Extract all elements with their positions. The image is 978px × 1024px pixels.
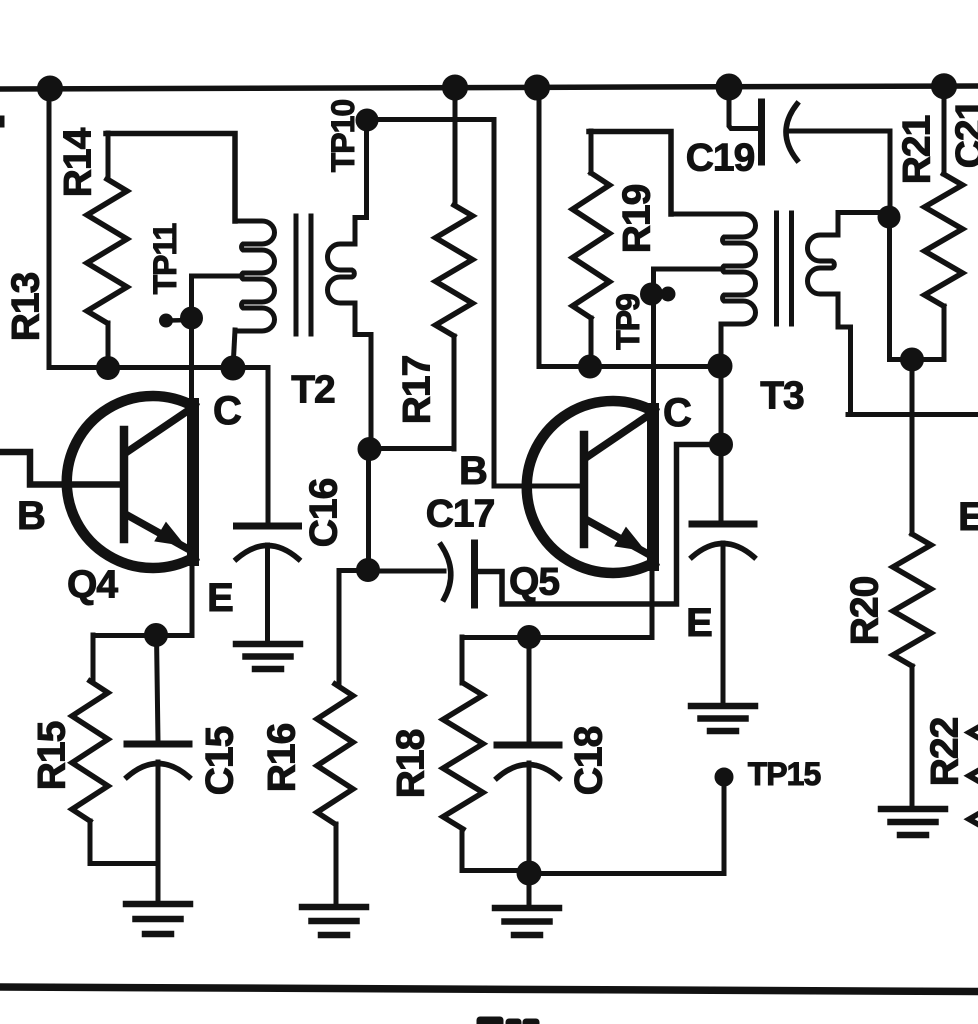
resistor R20 xyxy=(893,534,931,666)
wire: Q5 emitter lead xyxy=(650,563,655,637)
wire: Q5 emitter bias rail xyxy=(462,635,652,640)
svg-text:R15: R15 xyxy=(31,721,74,790)
svg-text:E: E xyxy=(686,601,712,645)
svg-text:Q5: Q5 xyxy=(509,561,559,604)
partial text below border (R23 top clipped) xyxy=(477,1017,503,1024)
transistor Q4 collector-emitter bar xyxy=(187,404,199,560)
ground for R16 xyxy=(302,904,366,911)
wire: R18 bottom to C18 xyxy=(462,868,529,873)
wire: T3 secondary bottom lead to output line xyxy=(838,294,851,413)
wire: TP15 lead xyxy=(529,781,724,874)
wire: T3 bottom node down through C17 node to C20 xyxy=(719,366,724,521)
wire: +V top supply bus xyxy=(0,86,978,89)
wire: T2 secondary top lead to TP10 xyxy=(355,121,367,244)
wire: stage-1 bias rail xyxy=(49,365,268,370)
transistor Q5 collector-emitter bar xyxy=(647,409,659,565)
svg-text:R13: R13 xyxy=(5,272,48,341)
wire: C19 to T3 secondary node xyxy=(791,131,890,218)
transformer T2 secondary winding xyxy=(328,244,356,303)
node: C18 junction xyxy=(518,626,541,649)
svg-text:TP10: TP10 xyxy=(325,100,361,173)
svg-text:R16: R16 xyxy=(261,723,304,792)
svg-text:C: C xyxy=(213,389,241,433)
wire: R17 bottom to junction xyxy=(369,446,454,451)
svg-text:C17: C17 xyxy=(426,493,495,536)
wire: Q4 base lead from left edge xyxy=(0,452,120,485)
resistor R17 xyxy=(453,91,458,205)
Q4 emitter diagonal with arrow xyxy=(127,515,188,549)
capacitor C15 xyxy=(157,635,159,741)
svg-text:C: C xyxy=(663,391,691,435)
wire: junction to C17 xyxy=(368,569,444,574)
transistor Q5 base bar xyxy=(580,435,589,544)
wire: T3 center tap to TP9 and Q5 collector xyxy=(654,269,724,410)
transistor Q4 body circle xyxy=(67,396,193,568)
svg-text:R17: R17 xyxy=(396,356,439,425)
node: C18 bottom / TP15 junction xyxy=(517,861,541,885)
wire: junction down to R16/C17 node xyxy=(366,449,371,570)
ground for C16 xyxy=(236,641,300,648)
wire: R14 top to T2 primary top xyxy=(106,134,235,222)
node: R19 bottom junction xyxy=(579,355,602,378)
node: R14 bottom junction xyxy=(97,357,120,380)
svg-text:E: E xyxy=(958,495,978,539)
wire: Q4 emitter bias rail xyxy=(93,633,192,638)
svg-text:T2: T2 xyxy=(291,369,335,412)
svg-text:Q4: Q4 xyxy=(67,564,118,607)
svg-text:R18: R18 xyxy=(390,729,433,798)
node: R21 / R20 junction xyxy=(901,348,924,371)
test point TP10 xyxy=(356,109,378,131)
node: bus junction at C19 xyxy=(716,74,742,100)
wire: output line to right edge xyxy=(848,412,978,417)
wire: left rail from bus down xyxy=(47,88,52,367)
svg-text:C21: C21 xyxy=(949,99,978,168)
svg-text:R22: R22 xyxy=(924,717,967,786)
svg-text:TP9: TP9 xyxy=(610,294,646,350)
svg-text:R19: R19 xyxy=(616,184,659,253)
capacitor C20 xyxy=(692,521,754,528)
wire: T3 secondary top lead to C19 node xyxy=(838,213,889,236)
wire: TP10 to Q5 base xyxy=(367,120,580,487)
capacitor C17 xyxy=(441,545,451,599)
node: C20 / T3-bottom / C17 junction xyxy=(710,433,733,456)
capacitor C16 xyxy=(237,523,299,530)
wire: R15 bottom to C15 xyxy=(90,861,158,866)
wire: T2 secondary bottom lead down to R17 junction xyxy=(355,303,371,449)
capacitor C19 xyxy=(729,87,757,129)
test point TP11 xyxy=(181,307,203,329)
svg-text:TP11: TP11 xyxy=(147,223,183,294)
node: T3 primary bottom node xyxy=(708,354,732,378)
svg-text:C16: C16 xyxy=(303,478,346,547)
ground for C18 xyxy=(495,905,559,912)
svg-text:C18: C18 xyxy=(568,726,611,795)
node: C19 / T3 secondary top junction xyxy=(878,206,900,228)
transformer T3 secondary winding xyxy=(808,235,837,294)
svg-text:B: B xyxy=(459,449,487,493)
Q5 emitter diagonal with arrow xyxy=(587,520,648,554)
border: bottom rule line xyxy=(0,987,978,992)
resistor R21 xyxy=(942,88,947,174)
Q5 collector diagonal xyxy=(587,417,646,457)
node: R16 / C17 junction xyxy=(357,559,380,582)
node: bus junction at R17 xyxy=(443,75,468,100)
transistor Q5 body circle xyxy=(527,401,653,573)
ground for R20 xyxy=(881,806,945,813)
svg-text:TP15: TP15 xyxy=(748,756,821,792)
resistor R18 xyxy=(460,637,465,683)
wire: T2 center tap to TP11 and Q4 collector xyxy=(192,276,243,408)
svg-text:R20: R20 xyxy=(844,576,887,645)
resistor R15 xyxy=(91,635,96,681)
wire: stub at left edge xyxy=(0,116,4,127)
node: collector node C (T2 primary bottom) xyxy=(221,356,245,380)
svg-text:B: B xyxy=(17,494,45,538)
wire: C17 to Q5 collector node loop xyxy=(474,445,721,605)
ground for C20 xyxy=(691,703,755,710)
wire: T2 primary bottom lead to collector node xyxy=(233,330,235,368)
resistor R19 xyxy=(589,131,594,173)
wire: C19 node down to R21 bottom rail xyxy=(890,218,945,360)
wire: stage-2 rail from bus down xyxy=(537,88,542,366)
svg-text:R21: R21 xyxy=(896,115,939,184)
node: bus junction at stage-2 rail xyxy=(525,75,550,100)
node: bus junction at R21 xyxy=(932,74,957,99)
resistor R22 (partially visible at right edge) xyxy=(969,700,978,830)
wire: T3 primary bottom lead xyxy=(719,327,724,366)
resistor R14 xyxy=(106,133,111,179)
node: R17 / T2 secondary junction xyxy=(358,438,381,461)
ground for C15 xyxy=(126,901,190,908)
transformer T2 primary winding xyxy=(235,221,275,331)
svg-text:T3: T3 xyxy=(760,375,804,418)
transformer T3 core xyxy=(774,213,779,324)
wire: stage-2 bias rail xyxy=(539,364,721,369)
wire: Q4 emitter lead xyxy=(190,558,195,635)
Q4 collector diagonal xyxy=(127,412,186,452)
transformer T3 primary winding xyxy=(671,214,756,324)
resistor R16 xyxy=(339,571,368,685)
svg-text:E: E xyxy=(207,576,233,620)
svg-text:R14: R14 xyxy=(57,127,100,197)
node: bus junction at left rail xyxy=(38,76,63,101)
capacitor C18 xyxy=(527,637,532,742)
wire: junction down to R20 xyxy=(910,359,915,534)
test point TP15 xyxy=(715,768,733,786)
transformer T2 core xyxy=(294,216,299,334)
transistor Q4 base bar xyxy=(120,430,129,539)
test point TP9 xyxy=(641,283,663,305)
wire: R19 top to T3 primary top xyxy=(589,132,671,215)
node: C15 junction xyxy=(145,624,168,647)
svg-text:C19: C19 xyxy=(686,137,755,180)
wire: collector node to C16 xyxy=(266,368,271,524)
svg-text:C15: C15 xyxy=(199,726,242,795)
